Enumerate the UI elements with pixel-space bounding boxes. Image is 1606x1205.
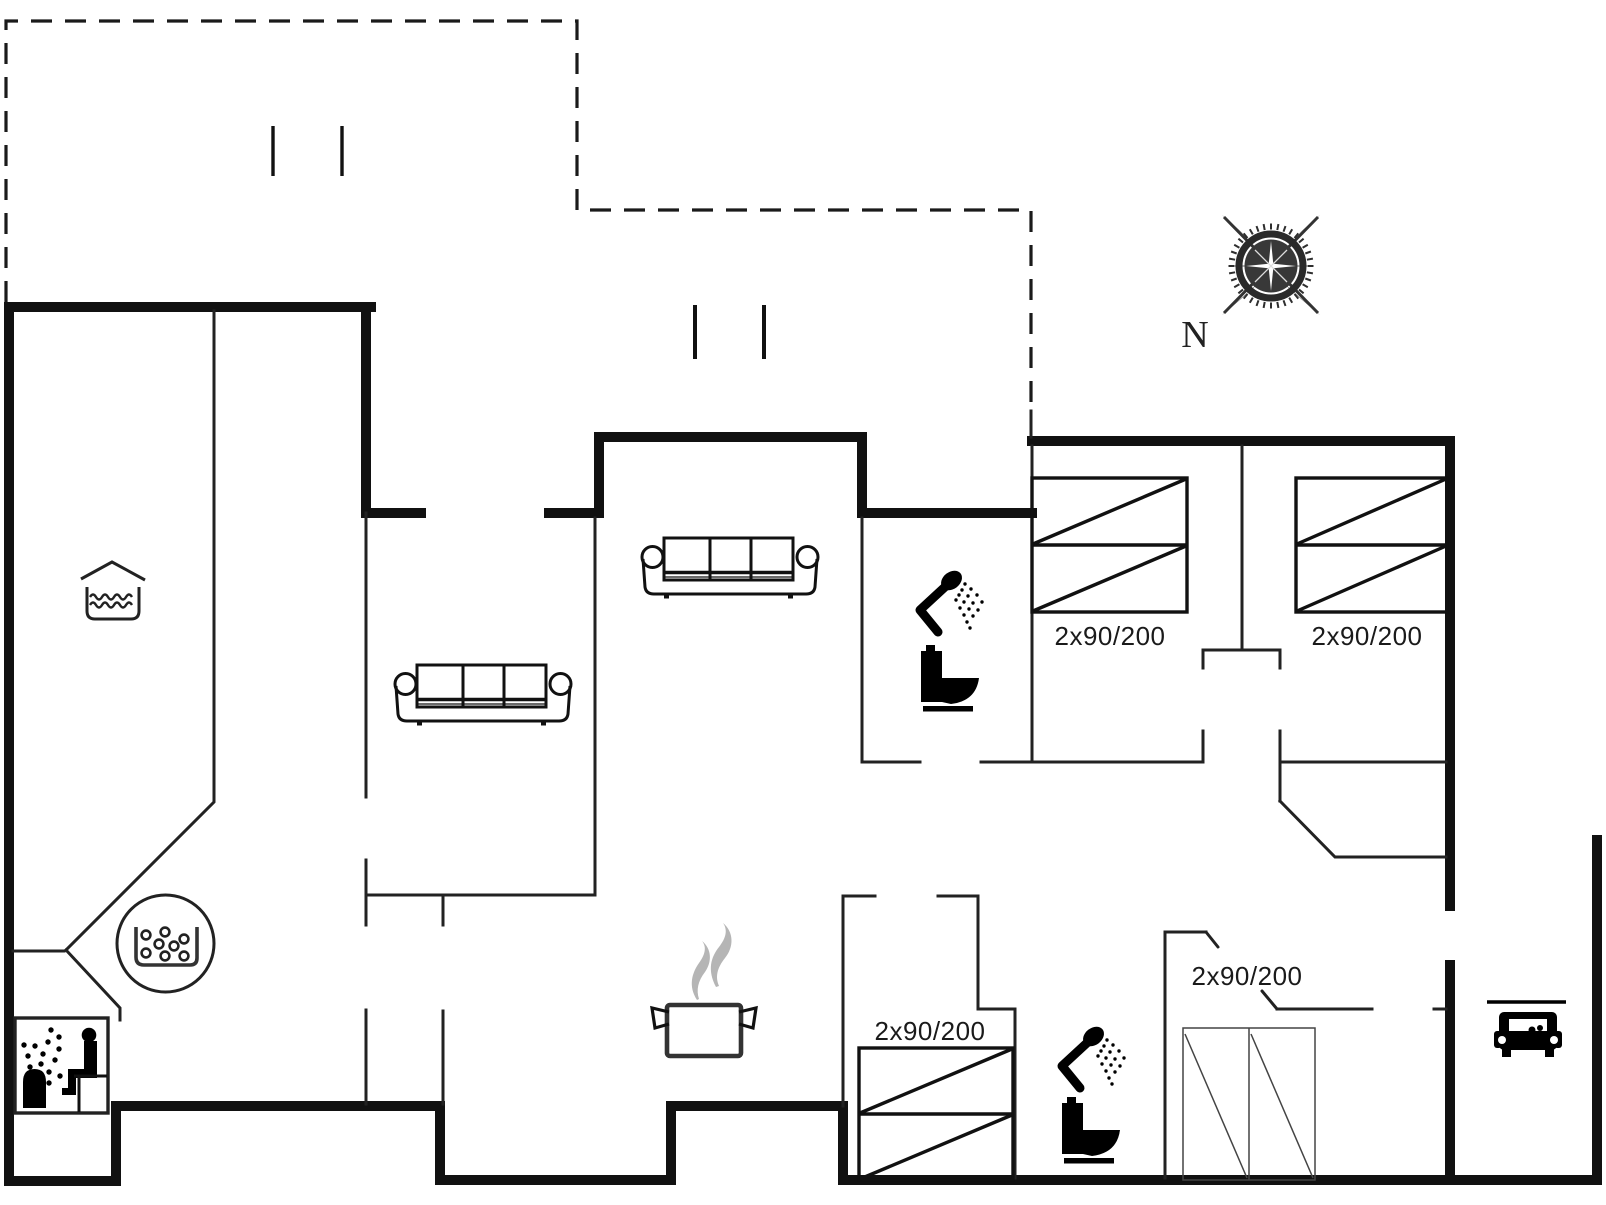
car in carport: [1487, 1002, 1566, 1057]
wall right side of annex down to living room: [361, 307, 371, 513]
closet stub wall: [442, 895, 445, 1104]
svg-text:N: N: [1181, 314, 1208, 356]
shower bathroom 2: [1062, 1023, 1126, 1088]
closet recess between bedrooms: [1203, 650, 1280, 668]
bottom-right bedroom top wall: [1165, 931, 1206, 934]
sauna bench: [74, 1076, 107, 1112]
bed bottom-left 2x90/200: [859, 1048, 1013, 1180]
wall below pool room: [13, 950, 64, 953]
cooking pot: [652, 923, 756, 1056]
annex inner wall: [66, 311, 214, 950]
jacuzzi circle: [117, 895, 214, 992]
dining room left wall with doors: [365, 513, 368, 1104]
sofa dining room: [395, 665, 571, 726]
bottom-left bedroom left wall thin part: [842, 896, 845, 1106]
bathroom 1 left wall: [861, 518, 864, 762]
svg-text:2x90/200: 2x90/200: [875, 1016, 986, 1046]
bathroom 1 bottom wall with door: [862, 761, 1203, 764]
svg-text:2x90/200: 2x90/200: [1192, 961, 1303, 991]
thick outer walls: left annex outline, bottom profile, right wing: [9, 307, 1597, 1181]
terrace dashed outline top-left: [6, 21, 1031, 413]
toilet bathroom 2: [1062, 1097, 1120, 1164]
window tick pair lower terrace: [695, 305, 764, 359]
window tick pair upper terrace: [273, 126, 342, 176]
short solid joint below dashed terrace line: [1030, 411, 1033, 437]
bed top-right 2x90/200: [1296, 478, 1447, 612]
svg-text:2x90/200: 2x90/200: [1312, 621, 1423, 651]
divider between top bedrooms: [1241, 446, 1244, 650]
sauna stove: [23, 1069, 46, 1108]
hall door stubs: [1203, 731, 1280, 801]
shower bathroom 1: [920, 567, 984, 632]
bedroom wing top wall and right wall: [1032, 441, 1450, 906]
bed top-left 2x90/200: [1032, 478, 1187, 612]
right middle room top wall: [1280, 761, 1446, 764]
bottom-left bedroom walls: [843, 896, 1015, 1178]
sauna steam dots: [21, 1027, 62, 1085]
compass rose: [1222, 215, 1320, 315]
thin interior walls: [13, 311, 1446, 1178]
hall wall below left bedroom: [1031, 446, 1034, 762]
living room left wall: [594, 518, 597, 895]
sofa living room: [642, 538, 818, 599]
pool icon: [81, 562, 145, 619]
sauna box: [15, 1018, 108, 1113]
diagonal wall to sauna: [66, 950, 120, 1020]
door swing diagonals: [1206, 932, 1277, 1009]
toilet bathroom 1: [921, 645, 979, 712]
living room door stub left: [366, 508, 421, 518]
wall segment right wing lower: [1445, 965, 1455, 1180]
svg-text:2x90/200: 2x90/200: [1055, 621, 1166, 651]
sauna person: [62, 1028, 97, 1095]
living room upper wall with alcove: [549, 437, 1032, 513]
door jamb near carport wall: [1434, 1008, 1446, 1011]
dining room bottom wall: [366, 894, 595, 897]
bottom-right bedroom inner wall: [1277, 1008, 1372, 1011]
bottom-right bedroom left wall: [1164, 932, 1167, 1178]
angled wall into right middle room: [1280, 801, 1446, 857]
bed bottom-right vertical 2x90/200: [1183, 1028, 1315, 1180]
